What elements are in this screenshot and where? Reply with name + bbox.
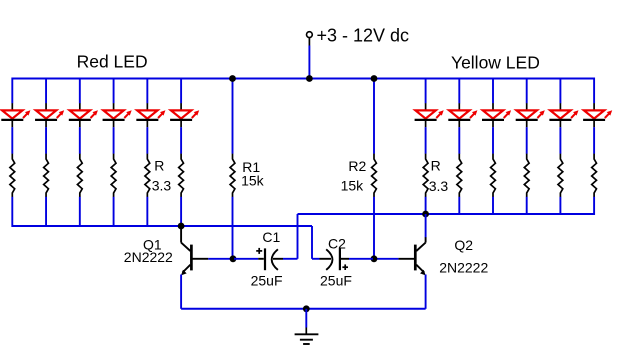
resistor R 3.3 (red column 4) (111, 154, 116, 197)
svg-text:Red LED: Red LED (77, 52, 148, 72)
LED yellow D10 (526, 103, 528, 110)
wire red LED column 1 middle (11, 127, 13, 154)
resistor R 3.3 (yellow column 5) (558, 154, 563, 197)
resistor R 3.3 (red column 1) (10, 154, 15, 197)
wire yellow LED column 4 top (526, 78, 528, 104)
capacitor C1 (234, 258, 258, 260)
wire red LED column 6 top (180, 78, 182, 104)
wire yellow LED column 1 middle (425, 127, 427, 154)
wire left collector rail (12, 225, 312, 227)
C1 plus sign (256, 250, 262, 252)
wire red LED column 3 top (79, 78, 81, 104)
resistor R 3.3 (yellow column 2) (457, 154, 462, 197)
wire red LED column 6 middle (180, 127, 182, 154)
wire red LED column 2 bottom (45, 197, 47, 227)
LED yellow D9 (492, 103, 494, 110)
wire yellow LED column 1 top (425, 78, 427, 104)
svg-text:Q2: Q2 (454, 237, 473, 253)
resistor R 3.3 (red column 6) (179, 154, 184, 197)
svg-text:R: R (154, 157, 164, 173)
resistor R 3.3 (yellow column 4) (524, 154, 529, 197)
LED yellow D7 (425, 103, 427, 110)
wire Q1 base (208, 258, 231, 260)
svg-text:25uF: 25uF (320, 272, 352, 288)
wire red LED column 2 top (45, 78, 47, 104)
wire Q2 collector from rail (425, 214, 427, 237)
LED yellow D11 (559, 103, 561, 110)
svg-text:2N2222: 2N2222 (439, 260, 488, 276)
junction ground / bottom rail (303, 305, 310, 312)
wire red LED column 5 top (146, 78, 148, 104)
LED red D5 (146, 103, 148, 110)
wire C1 to right rail riser (283, 258, 298, 260)
wire Q2 emitter down (425, 275, 427, 309)
LED red D1 (11, 103, 13, 110)
resistor R 3.3 (red column 3) (77, 154, 82, 197)
transistor Q2 (425, 237, 427, 243)
svg-text:+3 - 12V dc: +3 - 12V dc (317, 26, 410, 46)
LED red D2 (45, 103, 47, 110)
wire yellow LED column 2 top (458, 78, 460, 104)
junction R1 / top rail (229, 75, 236, 82)
ground (305, 309, 307, 328)
wire red LED column 4 top (113, 78, 115, 104)
svg-text:R: R (431, 157, 441, 173)
power terminal (308, 38, 310, 46)
resistor R 3.3 (yellow column 1) (423, 154, 428, 197)
junction power / top rail (306, 75, 313, 82)
LED yellow D8 (458, 103, 460, 110)
wire left rail drop to C2 (311, 226, 313, 259)
wire yellow LED column 2 bottom (458, 197, 460, 215)
LED yellow D12 (593, 103, 595, 110)
junction Q2 base / R2 / C2 (371, 255, 378, 262)
wire red LED column 6 bottom (180, 197, 182, 227)
svg-text:2N2222: 2N2222 (124, 249, 173, 265)
svg-text:3.3: 3.3 (429, 178, 449, 194)
LED red D4 (113, 103, 115, 110)
junction R2 / top rail (371, 75, 378, 82)
wire Q1 emitter down (180, 275, 182, 309)
resistor R 3.3 (yellow column 3) (491, 154, 496, 197)
svg-text:R2: R2 (348, 158, 366, 174)
resistor R1 (232, 80, 234, 154)
wire bottom emitter rail (181, 308, 426, 310)
transistor Q1 (180, 226, 182, 243)
wire yellow LED column 3 bottom (492, 197, 494, 215)
wire yellow LED column 3 middle (492, 127, 494, 154)
capacitor C2 (312, 258, 320, 260)
wire yellow LED column 4 middle (526, 127, 528, 154)
wire yellow LED column 6 bottom (593, 197, 595, 215)
wire yellow LED column 6 middle (593, 127, 595, 154)
wire yellow LED column 6 top (593, 78, 595, 104)
wire red LED column 4 middle (113, 127, 115, 154)
svg-text:15k: 15k (241, 173, 265, 189)
junction Q1 base / R1 / C1 (230, 255, 237, 262)
LED red D3 (79, 103, 81, 110)
wire yellow LED column 5 top (559, 78, 561, 104)
wire red LED column 5 bottom (146, 197, 148, 227)
resistor R 3.3 (yellow column 6) (592, 154, 597, 197)
wire yellow LED column 5 bottom (559, 197, 561, 215)
wire right rail drop to C1 (297, 214, 299, 259)
wire red LED column 5 middle (146, 127, 148, 154)
svg-text:3.3: 3.3 (152, 178, 172, 194)
wire C2 to Q2 base (349, 258, 373, 260)
resistor R 3.3 (red column 2) (44, 154, 49, 197)
wire yellow LED column 3 top (492, 78, 494, 104)
wire yellow LED column 5 middle (559, 127, 561, 154)
wire red LED column 4 bottom (113, 197, 115, 227)
wire red LED column 2 middle (45, 127, 47, 154)
wire Q2 base (375, 258, 398, 260)
C2 plus sign (342, 266, 348, 268)
svg-text:C2: C2 (328, 235, 346, 251)
junction Q1 collector / left rail (178, 223, 185, 230)
wire yellow LED column 4 bottom (526, 197, 528, 215)
svg-text:25uF: 25uF (251, 272, 283, 288)
wire red LED column 3 bottom (79, 197, 81, 227)
wire top power rail (12, 78, 594, 80)
svg-text:Yellow LED: Yellow LED (451, 53, 540, 73)
resistor R2 (373, 80, 375, 154)
wire red LED column 1 top (11, 78, 13, 104)
resistor R 3.3 (red column 5) (145, 154, 150, 197)
LED red D6 (180, 103, 182, 110)
junction Q2 collector / right rail (422, 211, 429, 218)
wire red LED column 3 middle (79, 127, 81, 154)
svg-text:C1: C1 (262, 229, 280, 245)
wire right collector rail (298, 213, 595, 215)
wire yellow LED column 2 middle (458, 127, 460, 154)
wire yellow LED column 1 bottom (425, 197, 427, 215)
svg-text:15k: 15k (341, 178, 365, 194)
wire red LED column 1 bottom (11, 197, 13, 227)
